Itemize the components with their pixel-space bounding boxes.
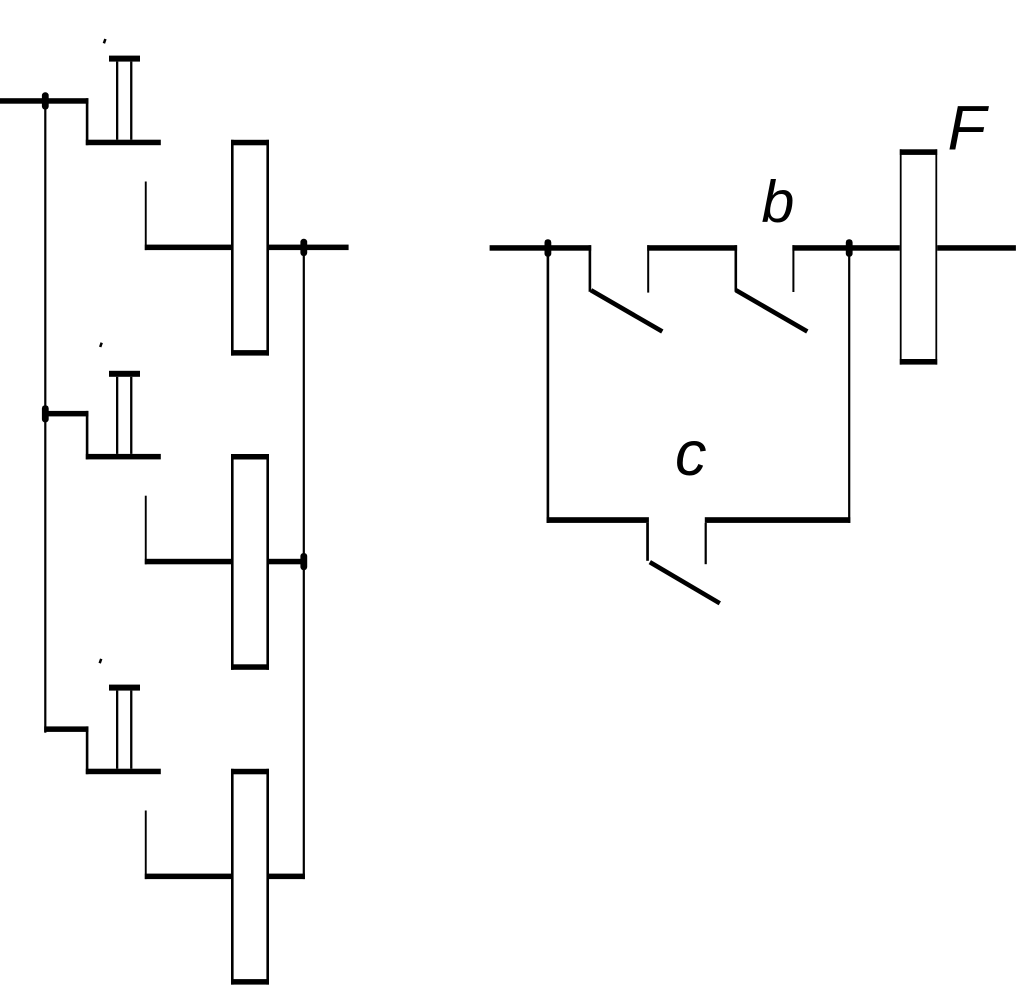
contact A: right terminal post xyxy=(647,245,649,292)
wire: branch 3 output stub up xyxy=(145,811,147,880)
wire: branch 2 output stub up xyxy=(145,496,147,565)
wire: right drop to lower branch xyxy=(848,248,850,523)
wire: step down from branch 3 input xyxy=(86,726,89,774)
wire: step down from branch 2 input xyxy=(86,411,89,460)
wire: branch 3 output right segment xyxy=(269,874,305,880)
contact K1: lower electrode bar xyxy=(86,140,161,146)
wire: branch 3 input from W2 xyxy=(44,726,88,732)
label: prime tick of contact K2 xyxy=(100,343,102,347)
contact K2: right gap electrode xyxy=(130,377,132,454)
contact A: movable blade xyxy=(591,290,662,331)
contact K2: left gap electrode xyxy=(116,377,118,454)
wire: branch 1 output right segment xyxy=(269,245,349,251)
relay coil K3: rectangle xyxy=(231,769,269,985)
node N2: junction dot branch 1 output xyxy=(300,239,307,256)
contact K3: upper plate xyxy=(109,685,140,691)
wire: branch 2 output left segment xyxy=(145,559,231,565)
wire: left drop to lower branch xyxy=(547,248,550,523)
svg-text:c: c xyxy=(675,419,707,489)
node N4: junction dot branch 2 output on W3 xyxy=(300,553,307,570)
node N1: junction dot on W1 xyxy=(42,92,49,109)
wire: branch 2 input from W2 xyxy=(44,411,88,417)
contact K2: upper plate xyxy=(109,371,140,377)
wire: branch 2 output right segment xyxy=(269,559,305,565)
wire: lower branch left segment xyxy=(547,517,649,523)
wire: main bus segment B xyxy=(647,245,737,251)
contact A: left terminal post xyxy=(589,245,592,292)
node N6: junction dot (parallel branch tap, right) xyxy=(846,239,853,257)
contact C: right terminal post xyxy=(705,523,707,564)
wire: step down from W1 to contact bar (branch 1) xyxy=(86,98,89,145)
contact K2: lower electrode bar xyxy=(86,454,161,460)
node N3: junction dot on W2 (branch 2) xyxy=(42,405,49,422)
contact K1: right gap electrode xyxy=(130,62,132,140)
contact K3: right gap electrode xyxy=(130,691,132,769)
load F: output element rectangle xyxy=(900,149,937,364)
wire: lower branch right segment xyxy=(705,517,851,523)
wire: main bus segment C xyxy=(792,245,899,251)
wire W2: left vertical bus from N1 down to branch 3 xyxy=(44,99,46,733)
contact B: movable blade xyxy=(736,290,807,331)
wire W3: right vertical bus from N2 down to branch 3 xyxy=(303,246,305,880)
wire: branch 1 output left segment xyxy=(145,245,231,251)
contact C: movable blade xyxy=(650,562,720,603)
node N5: junction dot (parallel branch tap, left) xyxy=(545,239,552,257)
wire: branch 1 output stub up xyxy=(145,182,147,251)
wire: branch 3 output left segment xyxy=(145,874,231,880)
svg-text:b: b xyxy=(762,169,795,235)
label: prime tick of contact K1 xyxy=(104,39,106,43)
svg-text:F: F xyxy=(948,93,990,163)
label: prime tick of contact K3 xyxy=(100,659,102,663)
wire: main bus segment A (input) xyxy=(490,245,592,251)
contact B: left terminal post xyxy=(735,245,738,292)
wire: main bus segment D (output) xyxy=(937,245,1016,251)
contact B: right terminal post xyxy=(792,245,794,292)
contact K3: left gap electrode xyxy=(116,691,118,769)
contact C: left terminal post xyxy=(646,523,649,561)
relay coil K1: rectangle xyxy=(231,140,269,356)
relay coil K2: rectangle xyxy=(231,454,269,670)
contact K1: left gap electrode xyxy=(116,62,118,140)
contact K3: lower electrode bar xyxy=(86,769,161,775)
contact K1: upper plate xyxy=(109,56,140,62)
wire W1: top input bus (branch 1) xyxy=(0,98,88,104)
